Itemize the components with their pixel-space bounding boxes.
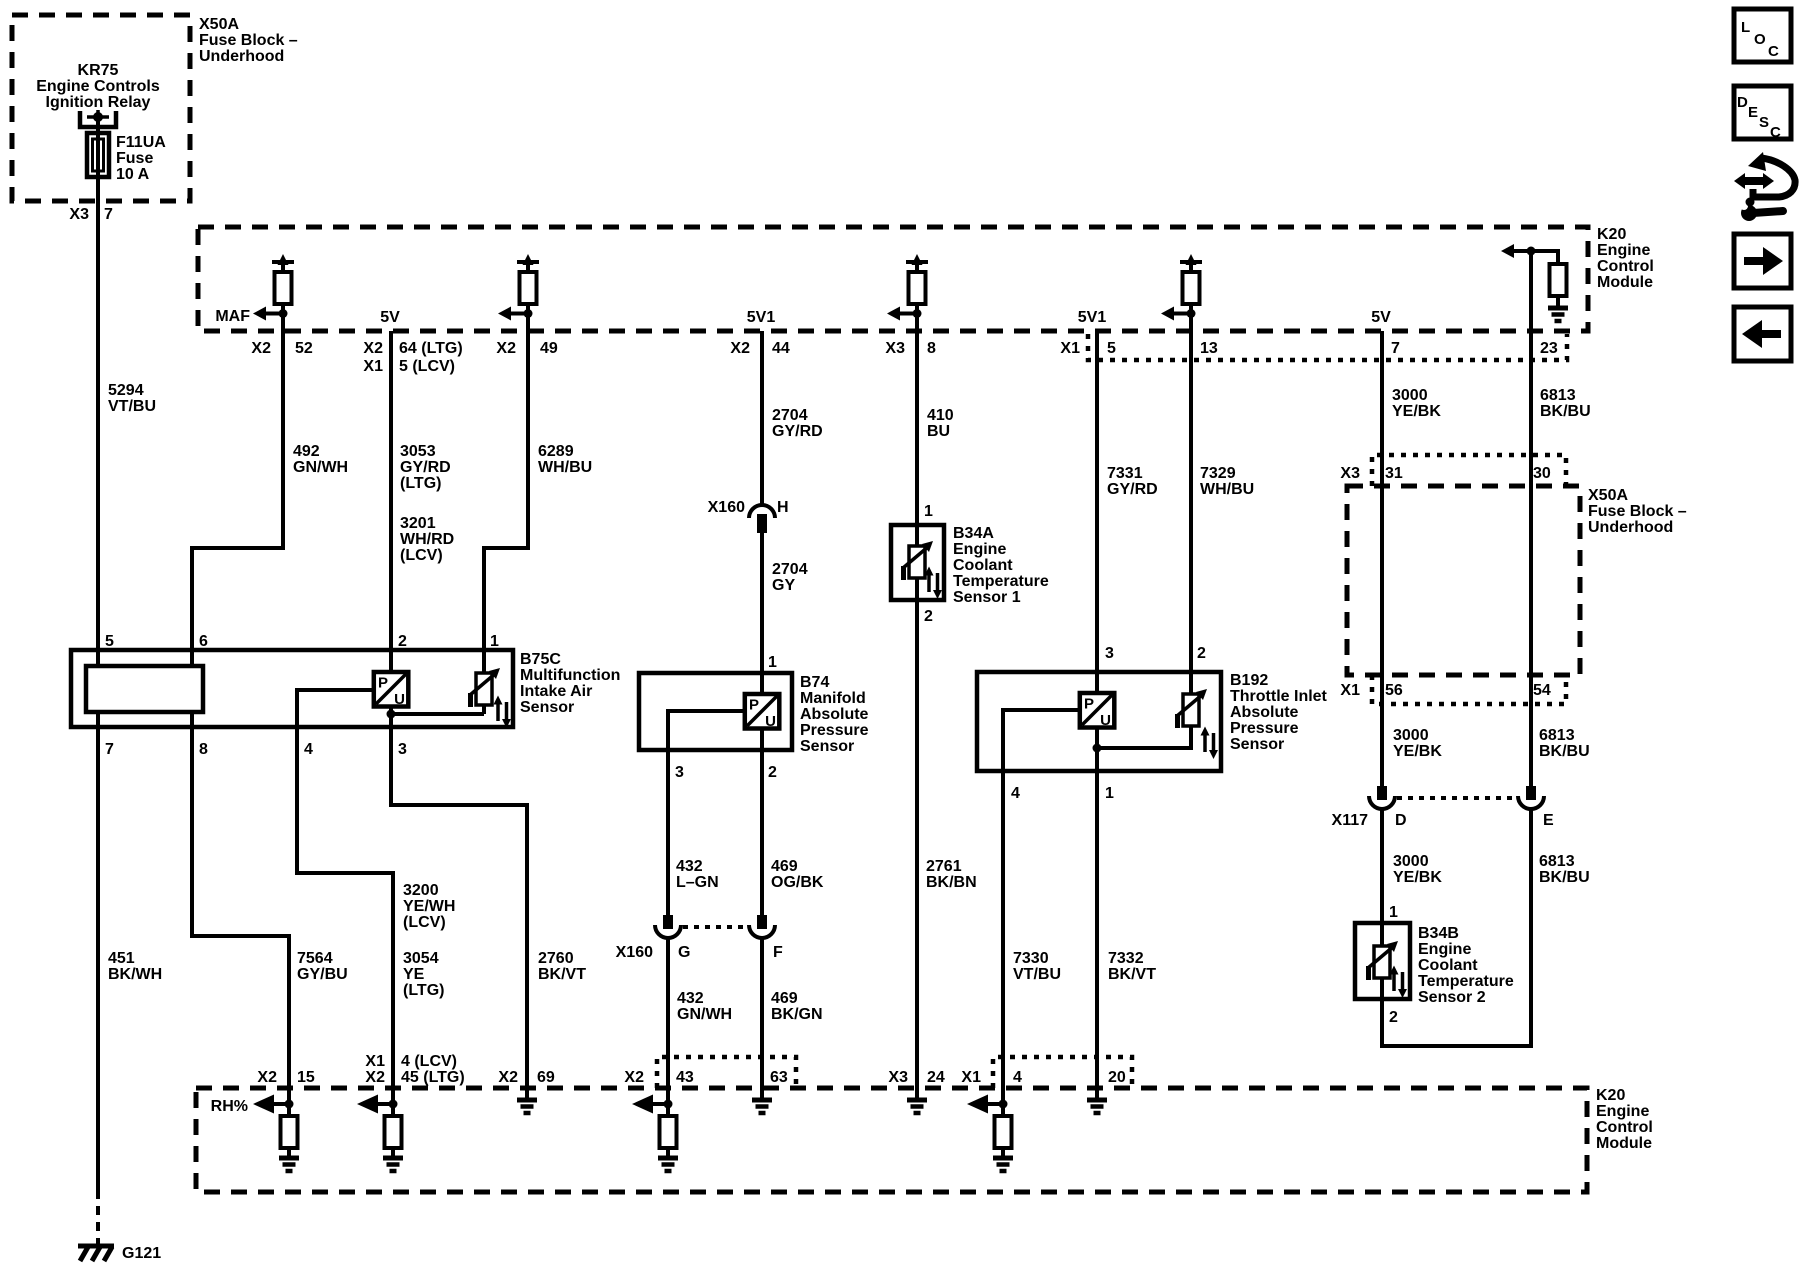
svg-text:BK/BU: BK/BU: [1539, 869, 1590, 886]
inline connector X160 F: [749, 915, 775, 938]
svg-text:Module: Module: [1597, 274, 1653, 291]
svg-text:54: 54: [1533, 682, 1551, 699]
B75C pin 4 wire to 3200/3054: [297, 690, 393, 1104]
svg-text:2: 2: [1389, 1009, 1398, 1026]
B75C pin 7 wire down: [96, 712, 100, 1190]
svg-text:492: 492: [293, 443, 320, 460]
svg-text:7: 7: [105, 741, 114, 758]
svg-text:49: 49: [540, 340, 558, 357]
svg-text:BK/VT: BK/VT: [1108, 966, 1156, 983]
dotted connector box pins 43 63: [657, 1057, 796, 1088]
svg-text:3: 3: [1105, 645, 1114, 662]
dotted connector box pins 56 54: [1372, 675, 1566, 704]
svg-text:D: D: [1395, 812, 1407, 829]
svg-text:E: E: [1543, 812, 1554, 829]
svg-text:6289: 6289: [538, 443, 574, 460]
B74 P/U element: [745, 694, 780, 730]
svg-text:Fuse: Fuse: [116, 150, 153, 167]
svg-text:BK/WH: BK/WH: [108, 966, 162, 983]
svg-text:GN/WH: GN/WH: [677, 1006, 732, 1023]
svg-text:1: 1: [1105, 785, 1114, 802]
svg-text:5: 5: [105, 633, 114, 650]
B34B thermistor: [1368, 941, 1398, 980]
relay KR75 contact symbol: [80, 110, 116, 127]
svg-text:43: 43: [676, 1069, 694, 1086]
svg-text:D: D: [1737, 94, 1748, 111]
B74 manifold absolute pressure sensor box: [639, 673, 792, 750]
svg-text:Underhood: Underhood: [1588, 519, 1673, 536]
svg-text:4 (LCV): 4 (LCV): [401, 1053, 457, 1070]
inline connector X117 D: [1369, 786, 1395, 809]
svg-text:G: G: [678, 944, 690, 961]
fuse block X50A underhood box (top-left): [12, 15, 190, 201]
svg-text:Engine: Engine: [1418, 941, 1471, 958]
wire 3000 YE/BK pin 7 down to X117 D: [1380, 331, 1384, 786]
svg-text:Control: Control: [1596, 1119, 1653, 1136]
svg-text:4: 4: [304, 741, 313, 758]
svg-text:O: O: [1754, 31, 1766, 48]
svg-text:5V: 5V: [1371, 309, 1391, 326]
svg-text:Pressure: Pressure: [800, 722, 869, 739]
B192 pin 4 wire 7330: [1003, 710, 1080, 1104]
svg-text:2704: 2704: [772, 561, 808, 578]
B192 up-down arrows: [1201, 727, 1219, 760]
dotted link X160 G-F: [683, 925, 747, 929]
forward arrow icon box: [1734, 234, 1791, 288]
svg-text:S: S: [1759, 114, 1769, 131]
svg-text:X1: X1: [961, 1069, 981, 1086]
svg-text:X160: X160: [616, 944, 653, 961]
DESC icon box: [1734, 86, 1791, 141]
wire 432 GN/WH to pin 43: [666, 938, 670, 1104]
RH% arrow resistor ground pin 15: [253, 1095, 299, 1172]
svg-text:Engine Controls: Engine Controls: [36, 78, 160, 95]
svg-text:3000: 3000: [1393, 727, 1429, 744]
B74 pin 3 wire 432: [668, 711, 744, 916]
svg-text:G121: G121: [122, 1245, 161, 1262]
svg-text:YE/WH: YE/WH: [403, 898, 455, 915]
svg-text:52: 52: [295, 340, 313, 357]
svg-text:1: 1: [490, 633, 499, 650]
arrow resistor ground pin 43: [632, 1095, 678, 1172]
svg-text:B34B: B34B: [1418, 925, 1459, 942]
wire 3053/3201 5V to B75C pin 2: [389, 331, 393, 672]
svg-text:7330: 7330: [1013, 950, 1049, 967]
svg-text:Sensor: Sensor: [520, 699, 574, 716]
svg-text:451: 451: [108, 950, 135, 967]
svg-text:56: 56: [1385, 682, 1403, 699]
svg-text:3000: 3000: [1393, 853, 1429, 870]
inline connector X160 H: [749, 505, 775, 533]
svg-text:8: 8: [927, 340, 936, 357]
wire 492 GN/WH pin 52 to B75C pin 6: [192, 304, 283, 666]
B75C pin 8 wire to 7564: [192, 712, 289, 1104]
svg-text:20: 20: [1108, 1069, 1126, 1086]
svg-text:GN/WH: GN/WH: [293, 459, 348, 476]
svg-text:X50A: X50A: [1588, 487, 1628, 504]
svg-text:OG/BK: OG/BK: [771, 874, 824, 891]
ground pin 69: [517, 1100, 537, 1113]
svg-text:BK/GN: BK/GN: [771, 1006, 823, 1023]
svg-text:X1: X1: [1340, 682, 1360, 699]
svg-text:B75C: B75C: [520, 651, 561, 668]
svg-text:69: 69: [537, 1069, 555, 1086]
svg-text:GY/RD: GY/RD: [1107, 481, 1158, 498]
B34A up-down arrows: [925, 567, 943, 600]
svg-text:KR75: KR75: [78, 62, 119, 79]
svg-text:F: F: [773, 944, 783, 961]
svg-text:Absolute: Absolute: [1230, 704, 1299, 721]
svg-text:410: 410: [927, 407, 954, 424]
svg-text:469: 469: [771, 990, 798, 1007]
resistor feed pin 49: [498, 254, 539, 331]
wire 6813 BK/BU pin 23 down to X117 E: [1529, 251, 1533, 786]
svg-text:Pressure: Pressure: [1230, 720, 1299, 737]
svg-text:6813: 6813: [1539, 853, 1575, 870]
B75C pin3 wire from P/U down with junction: [391, 707, 527, 1100]
svg-text:BU: BU: [927, 423, 950, 440]
svg-text:5: 5: [1107, 340, 1116, 357]
svg-text:YE: YE: [403, 966, 425, 983]
svg-text:1: 1: [924, 503, 933, 520]
svg-text:X2: X2: [624, 1069, 644, 1086]
svg-text:B192: B192: [1230, 672, 1268, 689]
svg-text:WH/RD: WH/RD: [400, 531, 454, 548]
svg-text:Underhood: Underhood: [199, 48, 284, 65]
svg-text:Coolant: Coolant: [1418, 957, 1478, 974]
svg-text:C: C: [1770, 124, 1781, 141]
svg-text:2: 2: [924, 608, 933, 625]
resistor feed pin 13: [1161, 254, 1202, 331]
svg-text:L: L: [1741, 19, 1750, 36]
svg-text:X2: X2: [730, 340, 750, 357]
svg-text:432: 432: [676, 858, 703, 875]
wire 2704 GY to B74 pin 1: [760, 533, 764, 694]
svg-text:7332: 7332: [1108, 950, 1144, 967]
B74 pin 2 wire 469: [760, 728, 764, 916]
svg-text:X2: X2: [365, 1069, 385, 1086]
svg-text:3000: 3000: [1392, 387, 1428, 404]
svg-text:6813: 6813: [1540, 387, 1576, 404]
LOC icon box: [1734, 9, 1791, 62]
svg-text:3201: 3201: [400, 515, 436, 532]
svg-text:Sensor: Sensor: [800, 738, 854, 755]
dotted connector box pins 4 20: [993, 1057, 1132, 1088]
svg-text:2704: 2704: [772, 407, 808, 424]
svg-text:Sensor: Sensor: [1230, 736, 1284, 753]
svg-text:Throttle Inlet: Throttle Inlet: [1230, 688, 1328, 705]
ground pin 20: [1087, 1100, 1107, 1113]
svg-text:YE/BK: YE/BK: [1393, 869, 1442, 886]
svg-text:3053: 3053: [400, 443, 436, 460]
svg-text:X3: X3: [1340, 465, 1360, 482]
svg-text:X2: X2: [251, 340, 271, 357]
svg-text:13: 13: [1200, 340, 1218, 357]
svg-text:L–GN: L–GN: [676, 874, 719, 891]
arrow resistor ground pin 45/4: [357, 1095, 403, 1172]
B34B up-down arrows: [1390, 966, 1408, 999]
svg-text:Engine: Engine: [953, 541, 1006, 558]
wire 451 dashed tail to G121: [96, 1190, 100, 1244]
svg-text:B74: B74: [800, 674, 829, 691]
svg-text:YE/BK: YE/BK: [1392, 403, 1441, 420]
ground pin 24: [907, 1100, 927, 1113]
svg-text:BK/VT: BK/VT: [538, 966, 586, 983]
K20 engine control module box (top): [198, 227, 1588, 331]
svg-text:45 (LTG): 45 (LTG): [401, 1069, 465, 1086]
svg-text:5V: 5V: [380, 309, 400, 326]
svg-text:X117: X117: [1332, 812, 1369, 829]
svg-text:5V1: 5V1: [747, 309, 776, 326]
svg-text:VT/BU: VT/BU: [108, 398, 156, 415]
svg-text:Sensor 1: Sensor 1: [953, 589, 1021, 606]
svg-text:Coolant: Coolant: [953, 557, 1013, 574]
svg-text:X1: X1: [365, 1053, 385, 1070]
B34A thermistor: [903, 541, 933, 580]
svg-text:3: 3: [398, 741, 407, 758]
svg-text:F11UA: F11UA: [116, 134, 166, 151]
resistor feed pin 8: [887, 254, 928, 331]
svg-text:WH/BU: WH/BU: [538, 459, 592, 476]
svg-text:30: 30: [1533, 465, 1551, 482]
svg-text:5 (LCV): 5 (LCV): [399, 358, 455, 375]
pointer tool icon: [1734, 152, 1795, 221]
svg-text:Ignition Relay: Ignition Relay: [46, 94, 151, 111]
svg-text:44: 44: [772, 340, 790, 357]
inline connector X117 E: [1518, 786, 1544, 809]
wire 410 BU pin 8 to B34A pin 1: [915, 304, 919, 545]
svg-text:X2: X2: [498, 1069, 518, 1086]
svg-text:Module: Module: [1596, 1135, 1652, 1152]
wire 2704 GY/RD pin 44 to X160 H: [760, 331, 764, 506]
svg-text:Engine: Engine: [1597, 242, 1650, 259]
svg-text:X1: X1: [1060, 340, 1080, 357]
svg-text:10 A: 10 A: [116, 166, 150, 183]
svg-text:(LTG): (LTG): [400, 475, 441, 492]
svg-text:K20: K20: [1597, 226, 1626, 243]
svg-text:RH%: RH%: [211, 1098, 248, 1115]
svg-text:24: 24: [927, 1069, 945, 1086]
wire 7329 WH/BU pin 13 to B192 pin 2: [1189, 304, 1193, 693]
svg-text:YE/BK: YE/BK: [1393, 743, 1442, 760]
svg-text:7: 7: [104, 206, 113, 223]
K20 dotted connector box pins 5-23: [1088, 334, 1567, 360]
B192 throttle inlet absolute pressure sensor box: [977, 672, 1221, 771]
svg-text:X3: X3: [888, 1069, 908, 1086]
svg-text:2: 2: [1197, 645, 1206, 662]
svg-text:X2: X2: [496, 340, 516, 357]
svg-text:432: 432: [677, 990, 704, 1007]
svg-text:X160: X160: [708, 499, 745, 516]
svg-text:BK/BN: BK/BN: [926, 874, 977, 891]
B34B pin 2 loop wire to 6813: [1382, 809, 1531, 1046]
inline connector X160 G: [655, 915, 681, 938]
pin 23 internal arrow and pullup resistor to ground: [1501, 244, 1568, 321]
svg-text:Absolute: Absolute: [800, 706, 869, 723]
svg-text:31: 31: [1385, 465, 1403, 482]
resistor feed MAF pin 52: [253, 254, 294, 331]
svg-text:Fuse Block –: Fuse Block –: [1588, 503, 1687, 520]
svg-text:2: 2: [398, 633, 407, 650]
svg-text:7564: 7564: [297, 950, 333, 967]
svg-text:7331: 7331: [1107, 465, 1143, 482]
B34B engine coolant temperature sensor 2 box: [1355, 923, 1410, 999]
svg-text:1: 1: [1389, 904, 1398, 921]
svg-text:B34A: B34A: [953, 525, 994, 542]
svg-text:X2: X2: [257, 1069, 277, 1086]
svg-text:K20: K20: [1596, 1087, 1625, 1104]
B75C thermistor element: [482, 648, 486, 714]
svg-text:MAF: MAF: [215, 308, 250, 325]
svg-text:23: 23: [1540, 340, 1558, 357]
ground pin 63: [752, 1100, 772, 1113]
svg-text:5V1: 5V1: [1078, 309, 1107, 326]
svg-text:3: 3: [675, 764, 684, 781]
svg-text:BK/BU: BK/BU: [1540, 403, 1591, 420]
svg-text:Multifunction: Multifunction: [520, 667, 620, 684]
arrow resistor ground pin 4: [967, 1095, 1013, 1172]
B75C P/U sensing element: [374, 672, 409, 708]
wire 469 BK/GN to pin 63: [760, 938, 764, 1100]
svg-text:Sensor 2: Sensor 2: [1418, 989, 1486, 1006]
svg-text:Temperature: Temperature: [1418, 973, 1514, 990]
svg-text:(LCV): (LCV): [403, 914, 446, 931]
svg-text:X2: X2: [363, 340, 383, 357]
svg-text:6: 6: [199, 633, 208, 650]
dotted link X117 D-E: [1397, 796, 1516, 800]
B34A engine coolant temperature sensor 1 box: [891, 525, 944, 600]
svg-text:4: 4: [1011, 785, 1020, 802]
svg-text:(LTG): (LTG): [403, 982, 444, 999]
svg-text:X1: X1: [363, 358, 383, 375]
back arrow icon box: [1734, 307, 1791, 361]
svg-text:Fuse Block –: Fuse Block –: [199, 32, 298, 49]
ground G121 chassis symbol: [78, 1246, 114, 1261]
svg-text:5294: 5294: [108, 382, 144, 399]
svg-text:6813: 6813: [1539, 727, 1575, 744]
svg-text:BK/BU: BK/BU: [1539, 743, 1590, 760]
svg-text:GY/BU: GY/BU: [297, 966, 348, 983]
svg-text:H: H: [777, 499, 789, 516]
svg-text:(LCV): (LCV): [400, 547, 443, 564]
svg-text:3054: 3054: [403, 950, 439, 967]
B75C multifunction intake air sensor box: [71, 650, 513, 727]
B192 thermistor: [1177, 689, 1207, 728]
svg-text:Temperature: Temperature: [953, 573, 1049, 590]
K20 engine control module box (bottom): [196, 1088, 1587, 1192]
svg-text:Manifold: Manifold: [800, 690, 866, 707]
svg-text:15: 15: [297, 1069, 315, 1086]
svg-text:WH/BU: WH/BU: [1200, 481, 1254, 498]
svg-text:64 (LTG): 64 (LTG): [399, 340, 463, 357]
B192 thermistor bottom link to pin1: [1097, 727, 1191, 748]
wire 7331 GY/RD pin 5 to B192 pin 3: [1095, 331, 1099, 693]
svg-text:GY: GY: [772, 577, 795, 594]
svg-text:469: 469: [771, 858, 798, 875]
svg-text:X3: X3: [885, 340, 905, 357]
svg-text:7: 7: [1391, 340, 1400, 357]
svg-text:VT/BU: VT/BU: [1013, 966, 1061, 983]
svg-text:7329: 7329: [1200, 465, 1236, 482]
wire 6289 WH/BU pin 49 to B75C pin 1: [484, 304, 528, 672]
svg-text:2761: 2761: [926, 858, 962, 875]
wire from relay through fuse down to B75C pin 5: [96, 121, 100, 666]
svg-text:GY/RD: GY/RD: [772, 423, 823, 440]
dotted connector box pins 31 30: [1372, 455, 1566, 486]
B75C thermistor up-down arrows: [494, 696, 512, 729]
svg-text:X50A: X50A: [199, 16, 239, 33]
B192 P/U element: [1080, 693, 1115, 729]
svg-text:2760: 2760: [538, 950, 574, 967]
svg-text:8: 8: [199, 741, 208, 758]
svg-text:GY/RD: GY/RD: [400, 459, 451, 476]
svg-text:Control: Control: [1597, 258, 1654, 275]
B75C heater element rectangle: [86, 666, 203, 712]
wire 3000 YE/BK X117 D to B34B pin 1: [1380, 809, 1384, 945]
svg-text:Intake Air: Intake Air: [520, 683, 592, 700]
svg-text:63: 63: [770, 1069, 788, 1086]
svg-text:1: 1: [768, 654, 777, 671]
svg-text:X3: X3: [69, 206, 89, 223]
svg-text:Engine: Engine: [1596, 1103, 1649, 1120]
svg-text:4: 4: [1013, 1069, 1022, 1086]
X50A fuse block underhood box (right): [1347, 486, 1580, 675]
B192 pin 1 wire 7332 to pin 20: [1095, 727, 1099, 1100]
svg-text:C: C: [1768, 43, 1779, 60]
svg-text:E: E: [1748, 104, 1758, 121]
svg-text:2: 2: [768, 764, 777, 781]
svg-text:3200: 3200: [403, 882, 439, 899]
fuse F11UA: [87, 133, 109, 177]
